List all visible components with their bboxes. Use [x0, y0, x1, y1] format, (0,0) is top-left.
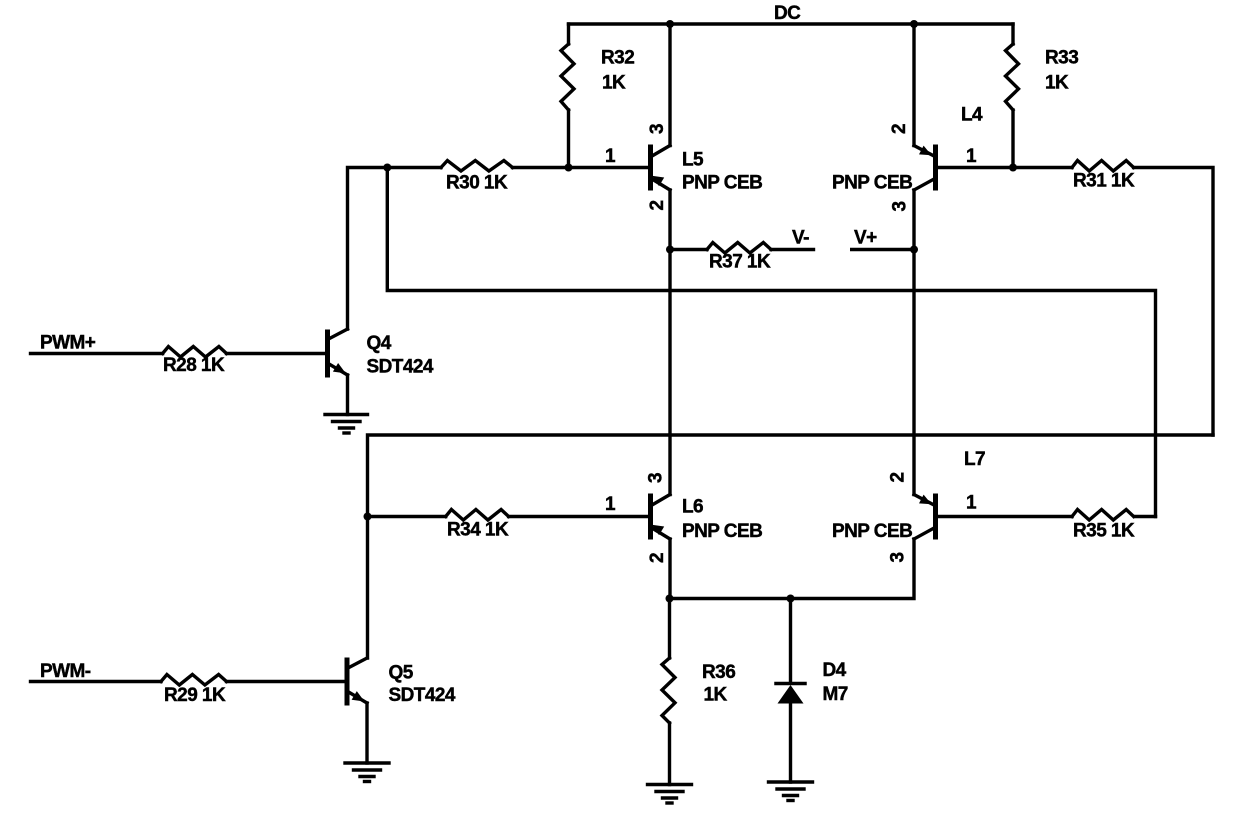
svg-text:M7: M7	[823, 684, 848, 705]
svg-text:D4: D4	[823, 660, 847, 681]
svg-text:PWM-: PWM-	[40, 661, 91, 682]
wire L7 base to R35	[937, 515, 1072, 518]
svg-text:2: 2	[647, 553, 668, 563]
resistor R36	[662, 599, 675, 785]
svg-text:R32: R32	[601, 48, 634, 69]
junction R32 bottom	[565, 164, 573, 172]
svg-text:R35 1K: R35 1K	[1073, 521, 1135, 542]
ground Q5	[345, 763, 389, 782]
resistor R31	[1072, 161, 1134, 172]
svg-text:R29 1K: R29 1K	[164, 685, 226, 706]
svg-text:V+: V+	[854, 228, 877, 249]
svg-text:PNP CEB: PNP CEB	[832, 173, 912, 194]
transistor L6	[651, 495, 671, 540]
wire PWM+ lead	[31, 352, 163, 355]
junction bottom node R36	[666, 595, 674, 603]
junction R33 bottom	[1009, 164, 1017, 172]
wire R29 to Q5 base	[227, 680, 346, 683]
ground D4	[769, 782, 813, 801]
diode D4	[776, 599, 805, 783]
svg-text:DC: DC	[774, 3, 801, 24]
wire DC rail	[569, 22, 1014, 25]
svg-text:3: 3	[647, 124, 668, 134]
junction V+ / L4 pin3	[910, 246, 918, 254]
resistor R34	[446, 510, 509, 521]
svg-text:2: 2	[647, 200, 668, 210]
svg-text:V-: V-	[792, 228, 809, 249]
svg-text:2: 2	[889, 124, 910, 134]
junction R34 branch	[364, 513, 372, 521]
junction DC/L4 pin2	[910, 20, 918, 28]
resistor R32	[561, 24, 574, 168]
wire R35 to corner	[1135, 515, 1156, 518]
wire crossbar to Q5 collector	[368, 435, 1214, 658]
wire R34 to L6 base	[509, 515, 649, 518]
wire L4 base to right	[937, 166, 1072, 169]
resistor R33	[1006, 24, 1019, 168]
wire R34 lead	[368, 515, 446, 518]
svg-text:Q4: Q4	[367, 333, 392, 354]
wire R30 to L5 base	[513, 166, 649, 169]
junction bottom node D4	[787, 595, 795, 603]
resistor R35	[1072, 510, 1134, 521]
svg-text:Q5: Q5	[389, 663, 414, 684]
transistor L5	[651, 146, 671, 191]
ground Q4	[325, 415, 368, 434]
svg-text:L4: L4	[961, 105, 983, 126]
svg-text:1: 1	[605, 494, 616, 515]
transistor Q4	[328, 329, 348, 375]
svg-text:SDT424: SDT424	[389, 685, 456, 706]
svg-text:PWM+: PWM+	[40, 333, 96, 354]
svg-text:R36: R36	[702, 662, 735, 683]
wire L5 emitter down	[668, 190, 671, 495]
wire V+ lead	[852, 248, 914, 251]
svg-text:3: 3	[890, 201, 911, 211]
transistor Q5	[347, 658, 367, 703]
svg-text:L7: L7	[964, 449, 985, 470]
resistor R30	[441, 161, 513, 172]
svg-text:R28 1K: R28 1K	[163, 355, 225, 376]
svg-text:1: 1	[966, 493, 977, 514]
resistor R29	[161, 675, 227, 686]
wire L5 collector	[668, 24, 671, 146]
wire Q5 emitter	[365, 703, 368, 763]
wire L4 pin3 down	[912, 190, 915, 495]
svg-text:1K: 1K	[704, 685, 728, 706]
resistor R28	[163, 347, 227, 358]
svg-text:1: 1	[605, 146, 616, 167]
svg-text:1: 1	[966, 146, 977, 167]
wire R31 to right edge down	[1134, 168, 1213, 436]
junction L5 emitter / R37	[666, 246, 674, 254]
wire PWM- lead	[31, 680, 162, 683]
transistor L7	[914, 495, 936, 540]
svg-text:SDT424: SDT424	[367, 357, 434, 378]
wire R28 to Q4 base	[227, 352, 326, 355]
junction DC/L5 collector	[666, 20, 674, 28]
wire Q4 collector to L5 base	[348, 168, 442, 330]
svg-text:L6: L6	[682, 497, 703, 518]
wire L4 pin2 up	[912, 24, 915, 146]
svg-text:PNP CEB: PNP CEB	[682, 173, 762, 194]
svg-text:R30 1K: R30 1K	[446, 173, 508, 194]
svg-text:3: 3	[888, 552, 909, 562]
svg-text:3: 3	[646, 473, 667, 483]
svg-text:L5: L5	[682, 150, 704, 171]
transistor L4	[914, 146, 936, 191]
junction Q4 node branch	[383, 164, 391, 172]
svg-text:R33: R33	[1045, 48, 1078, 69]
ground R36	[648, 785, 692, 804]
wire Q4 node to R35/L7 base	[387, 168, 1155, 517]
svg-text:2: 2	[888, 472, 909, 482]
wire L6 emitter down	[668, 539, 671, 599]
svg-text:1K: 1K	[1045, 73, 1069, 94]
svg-text:PNP CEB: PNP CEB	[832, 521, 912, 542]
svg-text:R31 1K: R31 1K	[1073, 171, 1135, 192]
svg-text:1K: 1K	[602, 73, 626, 94]
svg-text:R34 1K: R34 1K	[447, 520, 509, 541]
wire Q4 emitter	[346, 375, 349, 415]
svg-text:PNP CEB: PNP CEB	[682, 521, 762, 542]
resistor R37	[671, 243, 814, 254]
svg-text:R37 1K: R37 1K	[709, 252, 771, 273]
wire L7 pin3 to bottom node	[670, 539, 915, 599]
